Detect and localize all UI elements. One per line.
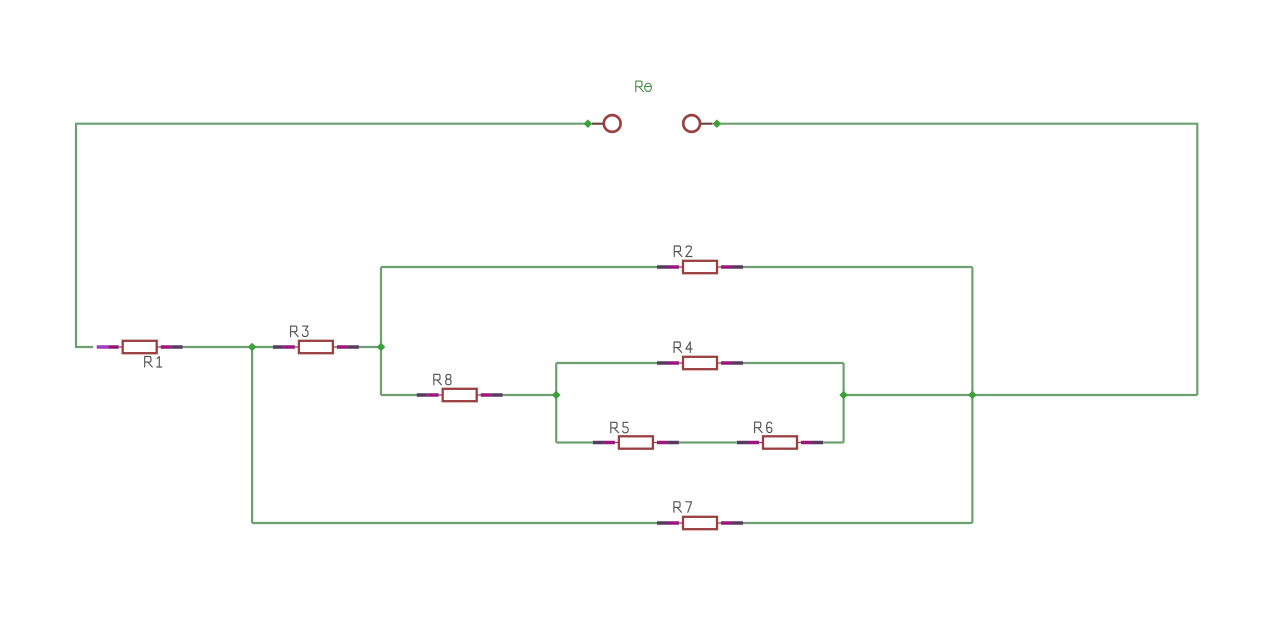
wire J2 vertical: [380, 267, 382, 395]
label R3: [291, 326, 309, 337]
wire left lower vertical: [251, 347, 253, 523]
wire right mid vertical: [971, 267, 973, 523]
connector Re pin stub right: [700, 123, 712, 125]
node box-left: [552, 391, 561, 400]
wire main row stub at left corner: [76, 346, 93, 348]
wire R3 to node J2: [359, 346, 381, 348]
label R6: [755, 422, 772, 433]
wire top-left horizontal: [76, 123, 588, 125]
pin R2 left: [657, 265, 668, 269]
resistor R3: [295, 341, 337, 353]
pin R8 right: [481, 393, 492, 397]
wire R5 to R6: [679, 441, 737, 443]
wire R8 row left: [381, 394, 417, 396]
node box-right: [839, 391, 848, 400]
connector Re pin stub left: [592, 123, 604, 125]
pin R1 right: [161, 345, 172, 349]
wire R2 row left: [381, 266, 657, 268]
wire Jr to right vertical: [972, 394, 1197, 396]
pin R3 right: [337, 345, 348, 349]
node Jr: [968, 391, 977, 400]
label R4: [674, 342, 692, 353]
wire R1 to node J1: [183, 346, 252, 348]
connector Re pin circle right: [683, 115, 700, 132]
pin R5 right: [657, 441, 668, 445]
wire R4 row left: [556, 362, 657, 364]
wire top-right horizontal: [717, 123, 1197, 125]
label R1: [145, 357, 162, 368]
node top-right diamond: [713, 119, 722, 128]
pin R8 left: [417, 393, 428, 397]
wire box left vertical: [555, 363, 557, 443]
connector Re pin circle left: [604, 115, 621, 132]
wire R7 row right: [743, 522, 972, 524]
wire R8 to box node: [503, 394, 557, 396]
node J2: [377, 343, 386, 352]
resistor R4: [679, 357, 721, 369]
label Re: [636, 81, 652, 92]
wire box to node Jr: [844, 394, 973, 396]
pin R7 left: [657, 521, 668, 525]
node top-left diamond: [584, 119, 593, 128]
label R8: [434, 374, 451, 385]
wire R4 row right: [743, 362, 844, 364]
pin R1 left: [97, 345, 109, 349]
pin R6 right: [801, 441, 812, 445]
label R2: [674, 246, 692, 257]
resistor R2: [679, 261, 721, 273]
pin R6 left: [737, 441, 748, 445]
resistor R5: [615, 436, 657, 448]
wire right vertical: [1196, 123, 1198, 395]
pin R3 left: [273, 345, 284, 349]
wire R6 to box right: [823, 441, 844, 443]
wire left vertical: [75, 123, 77, 348]
pin R4 right: [721, 361, 732, 365]
wire R2 row right: [743, 266, 972, 268]
pin R2 right: [721, 265, 732, 269]
label R7: [674, 502, 692, 513]
resistor R1: [119, 341, 161, 353]
resistor R6: [759, 436, 801, 448]
node J1: [248, 343, 257, 352]
wire R7 row left: [252, 522, 657, 524]
resistor R7: [679, 517, 721, 529]
label R5: [611, 422, 628, 433]
wire J1 to R3: [252, 346, 273, 348]
wire box right vertical: [842, 363, 844, 443]
pin R7 right: [721, 521, 732, 525]
pin R4 left: [657, 361, 668, 365]
resistor R8: [439, 389, 481, 401]
wire R5 row left: [556, 441, 593, 443]
pin R5 left: [593, 441, 604, 445]
